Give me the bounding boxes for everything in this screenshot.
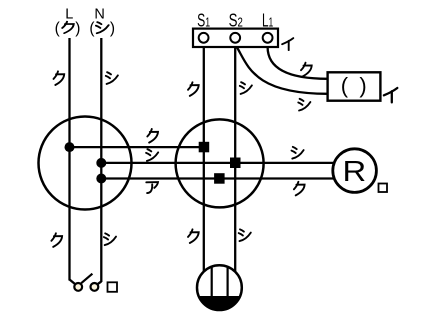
label ク on switch wire left bbox=[51, 233, 62, 247]
label ロ at switch bbox=[108, 282, 118, 292]
terminal S2 bbox=[230, 33, 240, 43]
lamp receptacle bbox=[197, 265, 242, 310]
lamp terminal line right bbox=[227, 267, 229, 296]
svg-text:(: ( bbox=[89, 20, 95, 37]
junction dot 3 bbox=[96, 174, 106, 184]
label ク on L1 curve bbox=[301, 63, 312, 77]
switch wire right bend bbox=[97, 282, 101, 285]
label ク on wire S1 upper bbox=[188, 82, 199, 96]
switch blade bbox=[81, 274, 92, 284]
label シ on S2 curve bbox=[298, 99, 310, 111]
junction dot 1 bbox=[65, 142, 75, 152]
label シ on middle horizontal wire bbox=[146, 149, 158, 161]
svg-text:): ) bbox=[75, 20, 80, 37]
wire N vertical bbox=[100, 38, 102, 282]
label シ on switch wire right bbox=[104, 233, 116, 245]
label イ at blank device box bbox=[384, 88, 397, 102]
label シ on wire N bbox=[106, 72, 118, 84]
wire horizontal top (ク) bbox=[70, 146, 205, 148]
junction square A bbox=[199, 142, 210, 153]
label ク on lamp wire left bbox=[188, 229, 199, 243]
svg-text:(: ( bbox=[55, 20, 61, 37]
label ク near receptacle R bbox=[294, 182, 305, 196]
junction dot 2 bbox=[96, 158, 106, 168]
label シ near receptacle R bbox=[292, 147, 304, 159]
lamp screw shell (filled) bbox=[199, 296, 241, 310]
label ア on bottom horizontal wire bbox=[146, 182, 158, 193]
wire curve L1 to combination lamp box bbox=[268, 47, 328, 79]
switch wire left bend bbox=[70, 280, 76, 285]
label シ on wire S2 upper bbox=[240, 82, 252, 94]
wire L vertical bbox=[68, 38, 70, 281]
wire S2 vertical bbox=[234, 47, 236, 272]
lamp terminal line left bbox=[211, 267, 213, 296]
blank device box ( ) bbox=[328, 72, 381, 100]
svg-text:(: ( bbox=[341, 73, 349, 98]
junction square B bbox=[230, 158, 241, 169]
junction square C bbox=[214, 173, 225, 184]
svg-text:L1: L1 bbox=[262, 11, 273, 31]
svg-text:): ) bbox=[110, 20, 115, 37]
terminal L1 bbox=[263, 33, 273, 43]
label ロ at receptacle R bbox=[379, 184, 388, 193]
receptacle R bbox=[333, 149, 377, 193]
label ク on top horizontal wire bbox=[147, 129, 158, 143]
wire horizontal middle (シ) bbox=[101, 162, 334, 164]
terminal S1 bbox=[199, 33, 209, 43]
terminal box bbox=[193, 29, 278, 47]
switch contact left bbox=[74, 283, 82, 291]
wire curve S2 to combination lamp box bbox=[237, 47, 328, 94]
svg-text:S1: S1 bbox=[197, 11, 210, 31]
svg-text:S2: S2 bbox=[229, 11, 243, 31]
switch contact right bbox=[91, 283, 99, 291]
label イ at terminal box bbox=[282, 38, 293, 50]
svg-text:N: N bbox=[94, 7, 104, 23]
svg-text:L: L bbox=[65, 7, 73, 23]
label シ on lamp wire right bbox=[239, 229, 251, 241]
wire S1 vertical bbox=[203, 47, 205, 272]
junction box center bbox=[176, 119, 264, 207]
wire horizontal bottom (ア/ク) bbox=[101, 177, 334, 179]
svg-text:R: R bbox=[343, 156, 367, 188]
svg-text:): ) bbox=[359, 73, 366, 98]
junction box left bbox=[39, 117, 132, 210]
label ク on wire L bbox=[54, 71, 65, 85]
